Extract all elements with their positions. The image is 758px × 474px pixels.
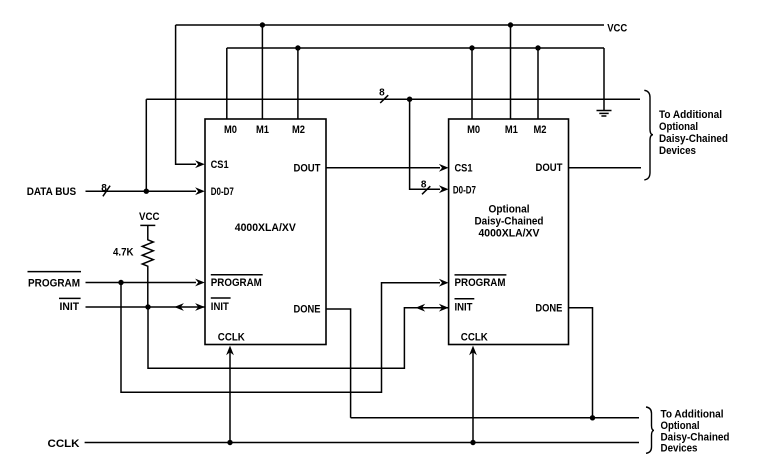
junction INIT branch xyxy=(145,304,150,309)
wire ground rail xyxy=(227,47,604,49)
wire CCLK to U2 xyxy=(469,346,477,443)
U2 pin label INIT (active low) xyxy=(455,299,475,314)
VCC terminal bar xyxy=(140,224,155,226)
svg-text:M2: M2 xyxy=(534,124,547,136)
svg-text:INIT: INIT xyxy=(60,301,80,313)
label INIT input (active low) xyxy=(59,298,81,313)
junction DONE rail xyxy=(590,415,595,420)
junction PROGRAM branch xyxy=(118,280,123,285)
brace: to additional devices (bottom) xyxy=(646,407,654,453)
svg-text:CS1: CS1 xyxy=(211,159,229,171)
svg-text:VCC: VCC xyxy=(607,22,627,34)
svg-text:CCLK: CCLK xyxy=(461,331,488,343)
wire U1 CS1 tie to VCC xyxy=(176,25,205,168)
bus width slash (rail) xyxy=(380,95,388,103)
wire INIT to U2 (bidirectional) xyxy=(148,304,449,368)
wire U2 M1 to VCC rail xyxy=(510,25,512,119)
brace: to additional devices (top) xyxy=(644,90,653,180)
svg-text:4000XLA/XV: 4000XLA/XV xyxy=(235,222,297,234)
note: to additional optional daisy-chained devices (bottom) xyxy=(661,409,730,455)
wire U1 M2 to ground rail xyxy=(297,48,299,119)
junction CCLK rail at U2 xyxy=(470,440,475,445)
wire ground drop xyxy=(603,48,605,111)
svg-text:Optional: Optional xyxy=(659,121,698,133)
svg-text:8: 8 xyxy=(101,183,107,194)
junction CCLK rail at U1 xyxy=(227,440,232,445)
svg-text:M1: M1 xyxy=(256,124,269,136)
junction ground rail at U2 M0 xyxy=(469,45,474,50)
svg-text:PROGRAM: PROGRAM xyxy=(455,277,506,289)
bus width slash (DATA BUS) xyxy=(103,186,110,197)
svg-text:M1: M1 xyxy=(505,124,518,136)
wire U2 M2 to ground rail xyxy=(537,48,539,119)
wire bus drop to U2 D0-D7 xyxy=(410,99,449,193)
IC U2 optional daisy-chained 4000XLA/XV body xyxy=(449,119,569,345)
svg-text:DONE: DONE xyxy=(535,303,562,315)
wire U2 M0 to ground rail xyxy=(471,48,473,119)
U2 pin label PROGRAM (active low) xyxy=(455,275,507,289)
svg-text:INIT: INIT xyxy=(455,302,473,314)
bus width slash (U2 drop) xyxy=(422,186,430,194)
svg-text:D0-D7: D0-D7 xyxy=(211,186,234,198)
wire U1 DONE xyxy=(326,309,351,418)
svg-text:Daisy-Chained: Daisy-Chained xyxy=(475,216,544,228)
junction VCC rail at U1 M1 xyxy=(260,22,265,27)
svg-text:Optional: Optional xyxy=(489,204,530,216)
wire DATA BUS to U1 D0-D7 xyxy=(86,187,205,195)
svg-text:Optional: Optional xyxy=(661,420,700,432)
ground symbol xyxy=(597,111,612,117)
svg-text:DONE: DONE xyxy=(294,304,321,316)
U1 pin label PROGRAM (active low) xyxy=(211,275,263,289)
junction bus rail to U2 branch xyxy=(407,97,412,102)
svg-text:CCLK: CCLK xyxy=(218,331,245,343)
svg-text:4000XLA/XV: 4000XLA/XV xyxy=(479,228,541,240)
svg-text:4.7K: 4.7K xyxy=(113,246,134,258)
junction VCC rail at U2 M1 xyxy=(508,22,513,27)
wire DONE rail to additional devices xyxy=(351,417,639,419)
svg-text:INIT: INIT xyxy=(211,301,229,313)
junction ground rail at U2 M2 xyxy=(535,45,540,50)
wire VCC rail xyxy=(176,24,604,26)
svg-text:To Additional: To Additional xyxy=(661,409,724,421)
label PROGRAM input (active low) xyxy=(28,272,82,290)
wire CCLK to U1 xyxy=(226,346,234,443)
svg-text:DOUT: DOUT xyxy=(536,162,563,174)
wire U2 DOUT to additional devices xyxy=(569,167,642,169)
svg-text:DOUT: DOUT xyxy=(294,163,321,175)
wire CCLK rail xyxy=(85,442,639,444)
svg-text:VCC: VCC xyxy=(139,211,160,223)
U1 pin label INIT (active low) xyxy=(211,298,231,313)
U2 device label Optional Daisy-Chained 4000XLA/XV xyxy=(475,204,544,240)
svg-text:M0: M0 xyxy=(224,124,237,136)
wire bus rail to additional devices xyxy=(146,98,640,100)
svg-text:Devices: Devices xyxy=(659,145,696,157)
junction ground rail at U1 M2 xyxy=(295,45,300,50)
wire PROGRAM to U2 xyxy=(121,279,449,393)
svg-text:Devices: Devices xyxy=(661,443,698,455)
wire U2 DONE xyxy=(569,308,593,418)
svg-text:DATA BUS: DATA BUS xyxy=(27,186,76,198)
svg-text:CCLK: CCLK xyxy=(48,438,80,450)
wire INIT to U1 (bidirectional) xyxy=(86,303,205,311)
note: to additional optional daisy-chained devices (top) xyxy=(659,109,728,157)
svg-text:CS1: CS1 xyxy=(455,163,473,175)
svg-text:8: 8 xyxy=(421,180,427,191)
wire bus riser xyxy=(145,99,147,191)
wire U1 DOUT to U2 CS1 xyxy=(326,164,449,172)
svg-text:8: 8 xyxy=(379,88,385,99)
svg-text:PROGRAM: PROGRAM xyxy=(28,277,80,289)
wire PROGRAM to U1 xyxy=(86,279,205,287)
svg-text:To Additional: To Additional xyxy=(659,109,722,121)
svg-text:PROGRAM: PROGRAM xyxy=(211,277,262,289)
resistor R1 4.7K pullup xyxy=(142,225,153,307)
svg-text:D0-D7: D0-D7 xyxy=(453,185,476,197)
svg-text:Daisy-Chained: Daisy-Chained xyxy=(661,431,730,443)
junction DATA BUS branch xyxy=(144,189,149,194)
svg-text:M0: M0 xyxy=(467,124,480,136)
wire U1 M0 to ground rail xyxy=(226,48,228,119)
wire U1 M1 to VCC rail xyxy=(261,25,263,119)
svg-text:Daisy-Chained: Daisy-Chained xyxy=(659,133,728,145)
IC U1 4000XLA/XV body xyxy=(205,119,326,345)
svg-text:M2: M2 xyxy=(292,124,305,136)
